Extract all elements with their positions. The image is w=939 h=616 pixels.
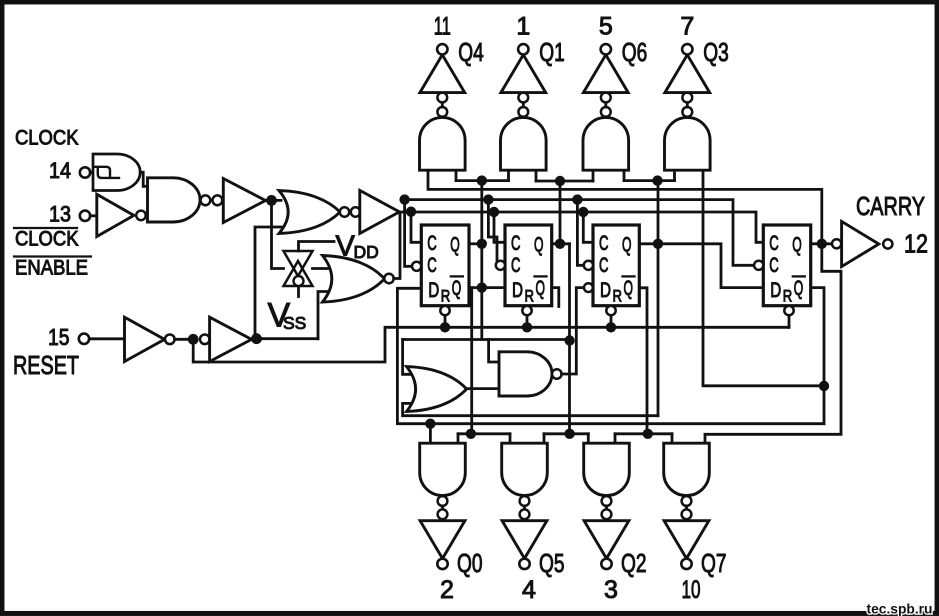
svg-text:C: C bbox=[427, 232, 437, 255]
wire OR G10 upper input wrap bbox=[403, 340, 410, 375]
svg-text:Q0: Q0 bbox=[457, 548, 483, 578]
junction C leg FF3 bbox=[578, 207, 588, 217]
OR gate G5 bbox=[279, 191, 340, 234]
wire bottom seg3 (gate3R-gate4L) bbox=[615, 434, 672, 443]
svg-text:C: C bbox=[769, 232, 779, 255]
wire Q2 vertical bbox=[568, 244, 571, 434]
bottom decode NAND B1 bbox=[420, 443, 466, 495]
top decode NAND T3 bbox=[583, 117, 629, 170]
svg-text:D: D bbox=[428, 279, 439, 302]
node Q3 junction bbox=[653, 239, 663, 249]
wire OR G10 lower input wrap bbox=[403, 403, 658, 415]
svg-text:CARRY: CARRY bbox=[856, 191, 925, 221]
svg-text:C: C bbox=[599, 254, 609, 277]
wire top seg2 (gate2R-gate3L) bbox=[536, 170, 593, 181]
carry buffer G12 bbox=[842, 221, 879, 266]
pin 15 label bbox=[48, 324, 70, 350]
svg-text:Q: Q bbox=[452, 277, 462, 300]
node R2 junction (buffer G9 output) bbox=[251, 333, 262, 344]
wire TG1 to NOR G7 upper input bbox=[313, 267, 329, 270]
top decode NAND T2 bbox=[501, 117, 547, 170]
inverter G2 (clock enable) bbox=[97, 194, 148, 236]
svg-text:Q5: Q5 bbox=[539, 548, 565, 578]
FF3 D input bubble bbox=[584, 283, 593, 292]
wire Q3 vertical bbox=[657, 181, 660, 416]
pin 5 label bbox=[599, 13, 613, 41]
wire bottom seg2 (gate2R-gate3L) bbox=[544, 434, 588, 443]
svg-text:12: 12 bbox=[904, 229, 928, 259]
top NAND T3 output bubble bbox=[601, 102, 611, 116]
svg-text:C: C bbox=[427, 254, 437, 277]
junction bottom seg2 bbox=[564, 429, 574, 439]
pin 15 terminal bbox=[79, 334, 125, 344]
D flip-flop FF1 bbox=[421, 225, 469, 306]
wire Q1-bar/D2 row bbox=[469, 286, 505, 289]
wire seg2 vertical bbox=[559, 181, 562, 244]
svg-text:CLOCK: CLOCK bbox=[15, 228, 79, 251]
node Q1 junction bbox=[477, 239, 487, 249]
pin 10 terminal bbox=[681, 559, 691, 569]
svg-text:DD: DD bbox=[354, 242, 379, 262]
junction R bus FF1 bbox=[440, 322, 450, 332]
bottom decode NAND B4 bbox=[664, 443, 710, 495]
top NAND T1 output bubble bbox=[437, 102, 447, 116]
pin 7 label bbox=[680, 13, 694, 41]
junction C leg FF2 bbox=[489, 207, 499, 217]
junction bottom seg3 bbox=[643, 429, 653, 439]
OR G5 output bubble bbox=[340, 207, 349, 216]
bottom NAND B4 output bubble bbox=[682, 496, 692, 509]
node D2 junction bbox=[477, 282, 487, 292]
top buffer T4 input bubble bbox=[682, 93, 692, 103]
svg-text:C: C bbox=[769, 254, 779, 277]
svg-text:Q: Q bbox=[794, 277, 804, 300]
CLOCK label bbox=[15, 127, 79, 150]
svg-text:2: 2 bbox=[440, 576, 454, 604]
svg-text:11: 11 bbox=[434, 13, 451, 41]
top output inverter T1 bbox=[420, 55, 465, 93]
wire top seg3 (gate3R-gate4L) bbox=[624, 170, 675, 180]
pin 13 label bbox=[49, 202, 71, 227]
svg-text:13: 13 bbox=[49, 202, 71, 227]
bottom output inverter B2 bbox=[502, 521, 547, 559]
bottom inverter B2 input bubble bbox=[520, 509, 530, 519]
top buffer T2 input bubble bbox=[518, 93, 528, 103]
svg-text:C: C bbox=[511, 232, 521, 255]
pin 3 label bbox=[604, 576, 618, 604]
wire C bus bbox=[399, 212, 763, 242]
wire FF3 R riser bbox=[610, 315, 613, 327]
wire C-bar bus bbox=[405, 200, 754, 266]
svg-text:Q: Q bbox=[536, 277, 546, 300]
svg-text:R: R bbox=[613, 287, 623, 306]
FF2 C-bar input bubble bbox=[496, 261, 505, 270]
Schmitt trigger buffer G1 bbox=[93, 154, 140, 191]
wire C-bar leg FF2 bbox=[488, 200, 499, 266]
pin 2 terminal bbox=[437, 559, 447, 569]
wire line y339 (NAND feed) bbox=[403, 338, 570, 341]
carry buffer G12 input bubble bbox=[832, 239, 841, 248]
output Q6 label bbox=[622, 37, 648, 67]
svg-text:Q: Q bbox=[450, 234, 460, 257]
top NAND T2 output bubble bbox=[518, 102, 528, 116]
wire NOR G7 lower input riser bbox=[318, 292, 328, 339]
bottom NAND B1 output bubble bbox=[438, 496, 448, 509]
svg-text:CLOCK: CLOCK bbox=[15, 127, 79, 150]
bottom decode NAND B3 bbox=[584, 443, 630, 495]
wire FF2 R riser bbox=[526, 315, 529, 327]
svg-text:tec.spb.ru: tec.spb.ru bbox=[867, 600, 933, 616]
junction R bus FF2 bbox=[522, 322, 532, 332]
wire C-bar leg FF3 bbox=[577, 200, 583, 266]
node feedback junction bottom gate1 bbox=[425, 419, 435, 429]
top buffer T3 input bubble bbox=[601, 93, 611, 103]
svg-text:4: 4 bbox=[522, 576, 536, 604]
FF4 C-bar input bubble bbox=[754, 261, 763, 270]
top output inverter T3 bbox=[583, 55, 628, 93]
VDD wire bbox=[299, 242, 335, 252]
wire bottom seg1 (gate1R-gate2L) bbox=[458, 434, 510, 443]
pin 5 terminal bbox=[601, 44, 611, 54]
buffer G6 input bubble bbox=[351, 207, 360, 216]
svg-text:Q6: Q6 bbox=[622, 37, 648, 67]
D flip-flop FF4 bbox=[763, 225, 810, 306]
pin 14 label bbox=[49, 158, 71, 183]
inverter G8 (reset) bbox=[125, 317, 175, 361]
bottom inverter B3 input bubble bbox=[602, 509, 612, 519]
wire Q3-bar vertical bbox=[639, 288, 647, 434]
buffer G9 input bubble bbox=[200, 335, 210, 345]
node Q4-bar junction bbox=[819, 381, 829, 391]
wire Q4 output bbox=[811, 242, 833, 245]
output Q4 label bbox=[458, 37, 484, 67]
D flip-flop FF3 bbox=[593, 225, 639, 306]
top decode NAND T4 bbox=[665, 117, 711, 170]
junction top seg3 bbox=[652, 175, 662, 185]
wire Q4-bar output bbox=[811, 288, 824, 424]
node Q2 mid junction bbox=[564, 335, 574, 345]
svg-text:5: 5 bbox=[599, 13, 613, 41]
wire Q2 output bbox=[552, 242, 570, 245]
node R junction bbox=[188, 334, 199, 345]
FF4 reset bubble bbox=[784, 306, 793, 315]
RESET label bbox=[13, 350, 79, 380]
svg-text:C: C bbox=[599, 232, 609, 255]
wire Q2-bar hook bbox=[552, 288, 559, 307]
wire NOR G7 output to C-bar node bbox=[394, 213, 400, 279]
wire FF1 R riser bbox=[444, 315, 447, 327]
svg-text:15: 15 bbox=[48, 324, 70, 350]
wire node A to transmission gate TG1 bbox=[272, 200, 284, 268]
wire Q1-bar vertical bbox=[470, 288, 473, 434]
output Q1 label bbox=[539, 37, 565, 67]
pin 12 label bbox=[904, 229, 928, 259]
NAND G11 bbox=[499, 352, 562, 396]
buffer G6 (C clock driver) bbox=[360, 190, 400, 233]
svg-text:3: 3 bbox=[604, 576, 618, 604]
output Q7 label bbox=[701, 548, 727, 578]
pin 4 label bbox=[522, 576, 536, 604]
svg-text:Q: Q bbox=[534, 234, 544, 257]
svg-text:ENABLE: ENABLE bbox=[15, 257, 88, 280]
pin 13 terminal bbox=[80, 211, 97, 221]
junction C-bar leg FF3 bbox=[572, 194, 582, 204]
VSS label bbox=[268, 297, 307, 335]
svg-text:D: D bbox=[600, 279, 611, 302]
svg-text:D: D bbox=[770, 279, 781, 302]
svg-text:C: C bbox=[511, 254, 521, 277]
pin 10 label bbox=[682, 576, 701, 604]
svg-text:RESET: RESET bbox=[13, 350, 79, 380]
wire OR G5 lower input from reset line bbox=[255, 227, 287, 339]
svg-text:Q2: Q2 bbox=[621, 548, 647, 578]
svg-text:R: R bbox=[783, 287, 793, 306]
pin 11 label bbox=[434, 13, 451, 41]
svg-text:Q1: Q1 bbox=[539, 37, 565, 67]
wire C leg FF2 bbox=[494, 212, 505, 242]
buffer G4 bbox=[223, 179, 265, 223]
wire Q1 output bbox=[469, 242, 482, 245]
D flip-flop FF2 bbox=[505, 225, 552, 306]
output Q3 label bbox=[703, 37, 729, 67]
CLOCK ENABLE label (overlined) bbox=[14, 228, 91, 280]
junction top seg2 bbox=[555, 176, 565, 186]
top output inverter T4 bbox=[665, 55, 710, 93]
pin 14 terminal bbox=[80, 167, 94, 177]
FF1 C-bar input bubble bbox=[412, 262, 421, 271]
node Q4 junction bbox=[817, 239, 827, 249]
wire NAND G11 output to D3 bbox=[562, 288, 584, 374]
carry output bubble bbox=[883, 239, 892, 248]
pin 11 terminal bbox=[437, 44, 447, 54]
bottom inverter B1 input bubble bbox=[438, 509, 448, 519]
NOR G7 bbox=[323, 256, 394, 303]
svg-text:Q: Q bbox=[792, 234, 802, 257]
wire line Q4-to-top (y189) bbox=[428, 170, 822, 244]
tec.spb.ru watermark bbox=[867, 600, 933, 616]
svg-text:Q: Q bbox=[622, 234, 632, 257]
wire C leg FF1 bbox=[411, 212, 421, 243]
node Q2 junction bbox=[555, 239, 565, 249]
junction bottom seg1 bbox=[466, 429, 476, 439]
svg-text:7: 7 bbox=[680, 13, 694, 41]
bottom inverter B4 input bubble bbox=[682, 509, 692, 519]
bottom output inverter B3 bbox=[584, 521, 629, 559]
wire NAND G11 top input riser bbox=[489, 340, 499, 363]
top buffer T1 input bubble bbox=[437, 93, 447, 103]
svg-text:Q3: Q3 bbox=[703, 37, 729, 67]
FF3 reset bubble bbox=[606, 306, 615, 315]
node C-bar junction bbox=[399, 194, 409, 204]
svg-text:14: 14 bbox=[49, 158, 71, 183]
svg-text:SS: SS bbox=[283, 313, 306, 333]
svg-text:D: D bbox=[512, 279, 523, 302]
wire FF4 R riser bbox=[788, 315, 791, 327]
wire node R2 to NOR riser bbox=[257, 337, 319, 340]
svg-text:R: R bbox=[441, 287, 451, 306]
svg-text:Q4: Q4 bbox=[458, 37, 484, 67]
bottom NAND B3 output bubble bbox=[602, 496, 612, 509]
NAND G3 (clock gating) bbox=[148, 178, 223, 222]
junction top seg1 bbox=[477, 175, 487, 185]
svg-text:R: R bbox=[525, 287, 535, 306]
wire bottom gate1 left leg bbox=[429, 424, 432, 444]
svg-text:Q7: Q7 bbox=[701, 548, 727, 578]
wire G8 to G9 bbox=[175, 338, 188, 341]
node C junction bbox=[406, 207, 416, 217]
pin 3 terminal bbox=[601, 559, 611, 569]
junction R bus FF3 bbox=[606, 322, 616, 332]
FF1 reset bubble bbox=[440, 306, 449, 315]
wire Q4-bar feedback to D1 bbox=[397, 288, 824, 423]
pin 4 terminal bbox=[519, 559, 529, 569]
wire Q4 branch down bbox=[705, 244, 841, 443]
output Q0 label bbox=[457, 548, 483, 578]
output Q2 label bbox=[621, 548, 647, 578]
wire G1 output jog to NAND G3 bbox=[140, 172, 147, 186]
junction C-bar leg FF2 bbox=[483, 194, 493, 204]
OR gate G10 bbox=[407, 367, 467, 412]
FF3 C-bar input bubble bbox=[584, 261, 593, 270]
svg-text:Q: Q bbox=[624, 277, 634, 300]
node A junction (buffer G4 output) bbox=[266, 195, 282, 206]
wire OR G10 output to NAND G11 bbox=[467, 387, 499, 390]
top decode NAND T1 bbox=[420, 117, 466, 170]
bottom output inverter B1 bbox=[420, 521, 465, 559]
pin 7 terminal bbox=[682, 44, 692, 54]
wire C leg FF3 bbox=[583, 212, 593, 242]
wire Q3 output to D4 bbox=[639, 244, 763, 288]
wire C-bar leg FF1 bbox=[405, 200, 416, 267]
wire top gate4 right leg bbox=[703, 170, 824, 386]
wire top seg1 (gate1R-gate2L) bbox=[456, 170, 509, 180]
pin 2 label bbox=[440, 576, 454, 604]
top NAND T4 output bubble bbox=[682, 102, 692, 116]
bottom decode NAND B2 bbox=[502, 443, 548, 495]
top output inverter T2 bbox=[501, 55, 546, 93]
pin 1 terminal bbox=[518, 44, 528, 54]
bottom NAND B2 output bubble bbox=[520, 496, 530, 509]
bottom output inverter B4 bbox=[664, 521, 709, 559]
wire Q1 vertical bbox=[480, 181, 483, 340]
FF2 reset bubble bbox=[522, 306, 531, 315]
CARRY label bbox=[856, 191, 925, 221]
output Q5 label bbox=[539, 548, 565, 578]
buffer G9 (reset) bbox=[210, 317, 252, 361]
transmission gate TG1 bbox=[284, 251, 313, 286]
pin 1 label bbox=[516, 13, 530, 41]
svg-text:10: 10 bbox=[682, 576, 701, 604]
svg-text:1: 1 bbox=[516, 13, 530, 41]
VSS wire bbox=[297, 287, 300, 297]
VDD label bbox=[336, 231, 379, 263]
wire R bus bbox=[193, 327, 789, 362]
